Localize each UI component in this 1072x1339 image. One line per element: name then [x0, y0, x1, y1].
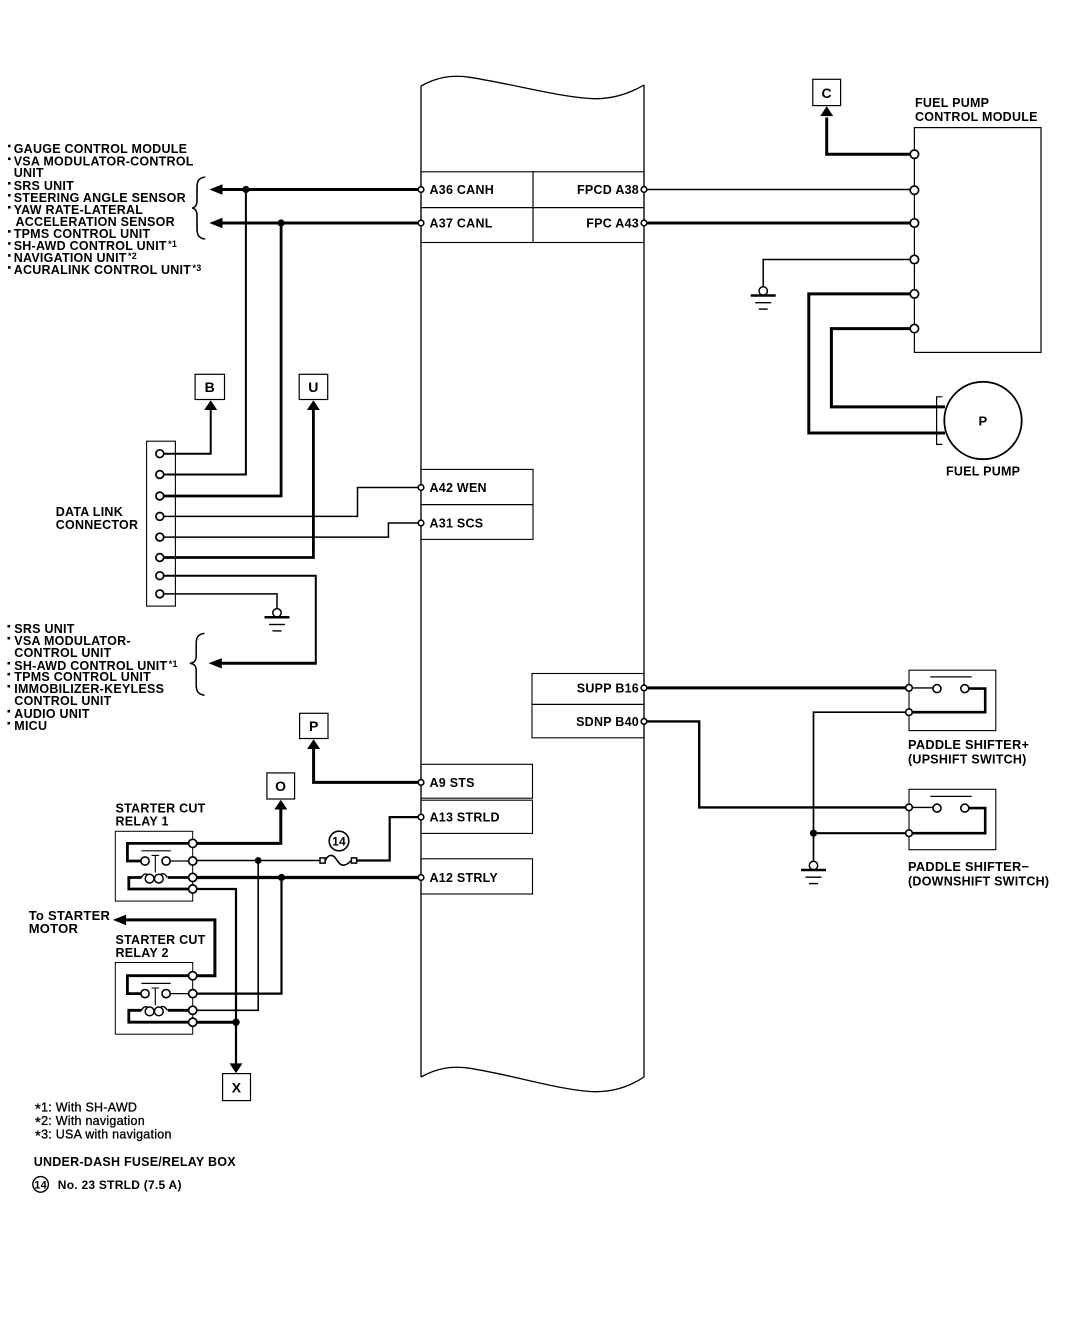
fuel pump motor P [937, 382, 1022, 479]
svg-text:A42 WEN: A42 WEN [430, 481, 487, 495]
svg-text:C: C [822, 85, 832, 101]
wire DLC pin7 down [164, 576, 316, 664]
connector C [813, 79, 841, 105]
svg-text:UNIT: UNIT [14, 166, 44, 180]
connector B [195, 374, 224, 399]
pin A42 WEN [418, 469, 533, 504]
pin A31 SCS [418, 505, 533, 540]
arrowhead into connector P [307, 739, 320, 749]
brace for K-line units [190, 633, 205, 695]
svg-text:ACURALINK CONTROL UNIT *3: ACURALINK CONTROL UNIT *3 [14, 263, 202, 277]
wire DLC pin1 to connector B [164, 410, 211, 454]
pin A36 CANH [418, 172, 533, 208]
connector P [300, 713, 328, 738]
junction paddle ground [810, 830, 817, 837]
svg-text:SDNP B40: SDNP B40 [576, 715, 639, 729]
svg-text:CONTROL UNIT: CONTROL UNIT [14, 646, 111, 660]
svg-text:X: X [232, 1080, 242, 1096]
wire upshift switch to ground [814, 712, 907, 861]
svg-text:P: P [309, 718, 319, 734]
pin FPC A43 [533, 208, 647, 243]
wire relay 2 pin4 segment [197, 1021, 236, 1024]
wire A9 STS to connector P [314, 749, 418, 783]
svg-text:CONTROL MODULE: CONTROL MODULE [915, 110, 1038, 124]
ground G data link connector [265, 609, 290, 631]
svg-text:FUEL PUMP: FUEL PUMP [915, 96, 989, 110]
paddle shifter- downshift switch S2 [906, 789, 1050, 888]
connector X [223, 1074, 251, 1101]
wire module pin6 to fuel pump + [831, 329, 945, 407]
svg-text:MOTOR: MOTOR [29, 921, 79, 936]
svg-text:A31 SCS: A31 SCS [430, 516, 484, 530]
wire DLC pin4 to A42 WEN [164, 488, 418, 517]
wire DLC pin5 to A31 SCS [164, 523, 418, 537]
wire SDNP B40 to downshift switch [648, 721, 907, 807]
fuse callout circled 14 [329, 831, 349, 851]
svg-text:B: B [205, 379, 215, 395]
fuse No.23 STRLD 7.5A [320, 855, 357, 865]
svg-text:PADDLE SHIFTER+: PADDLE SHIFTER+ [908, 737, 1029, 752]
svg-text:UNDER-DASH FUSE/RELAY BOX: UNDER-DASH FUSE/RELAY BOX [34, 1155, 237, 1169]
wire downshift switch to ground junction [814, 832, 907, 834]
junction on STRLD wire [255, 857, 262, 864]
svg-text:STARTER CUT: STARTER CUT [116, 933, 206, 947]
svg-text:A9 STS: A9 STS [430, 776, 475, 790]
arrowhead to gauge list (A37) [209, 218, 222, 228]
svg-text:PADDLE SHIFTER−: PADDLE SHIFTER− [908, 859, 1029, 874]
connector O [267, 773, 295, 799]
starter cut relay 2 [115, 933, 205, 1034]
arrowhead into connector X [230, 1063, 243, 1073]
pin A12 STRLY [418, 859, 532, 894]
wire SUPP B16 to upshift switch [648, 686, 907, 689]
pin SDNP B40 [532, 704, 647, 737]
svg-text:CONNECTOR: CONNECTOR [56, 518, 139, 532]
legend circled 14 fuse No.23 STRLD 7.5A [33, 1177, 182, 1193]
junction on X wire [232, 1019, 239, 1026]
wire module pin1 to connector C [827, 118, 911, 155]
pin A13 STRLD [418, 800, 532, 833]
svg-text:(UPSHIFT SWITCH): (UPSHIFT SWITCH) [908, 753, 1027, 767]
arrowhead to second unit list [209, 658, 222, 668]
wire module pin4 to ground [763, 260, 911, 287]
wire DLC pin8 to ground [164, 594, 277, 609]
wire A37 CANL to multi-unit arrow [217, 222, 418, 225]
junction on STRLY wire [278, 874, 285, 881]
wire A36 branch to DLC pin 2 [164, 191, 246, 475]
svg-text:MICU: MICU [14, 719, 47, 733]
label to starter motor [29, 908, 111, 936]
svg-text:P: P [979, 414, 988, 429]
wire STRLY branch to relay 2 pin2 [197, 878, 282, 994]
ECM/PCM connector band [421, 76, 644, 1091]
wire STRLD branch to relay 2 pin3 [197, 861, 259, 1011]
wire A37 branch to DLC pin 3 [164, 225, 281, 497]
ground G paddle shifters [801, 861, 826, 883]
node list: CAN bus units (top left) [8, 142, 201, 277]
wire FPC A43 to fuel pump control module [648, 222, 912, 225]
wire DLC pin7 to second unit-list arrow [217, 662, 317, 665]
data link connector DLC [56, 441, 176, 606]
svg-text:A12 STRLY: A12 STRLY [430, 871, 499, 885]
wire fuse to starter cut relay 1 pin2 [197, 860, 320, 862]
footnotes [35, 1101, 172, 1145]
svg-text:RELAY 1: RELAY 1 [116, 815, 169, 829]
wire DLC pin6 to connector U [164, 410, 314, 558]
arrowhead into connector B [204, 400, 217, 410]
svg-text:RELAY 2: RELAY 2 [116, 946, 169, 960]
wire relay 1 pin4 / relay 2 pin4 to connector X [197, 889, 236, 1064]
pin A9 STS [418, 764, 532, 798]
svg-text:SUPP B16: SUPP B16 [577, 681, 639, 695]
junction on A36 CANH wire [242, 186, 249, 193]
paddle shifter+ upshift switch S1 [906, 670, 1029, 766]
svg-text:A36 CANH: A36 CANH [430, 183, 495, 197]
svg-text:FPC A43: FPC A43 [586, 216, 639, 230]
pin FPCD A38 [533, 172, 647, 208]
svg-text:O: O [275, 778, 286, 794]
wire FPCD A38 to fuel pump control module [648, 189, 912, 191]
svg-text:A37 CANL: A37 CANL [430, 216, 493, 230]
svg-text:U: U [308, 379, 318, 395]
fuel pump control module U1 [910, 96, 1041, 352]
svg-text:FUEL PUMP: FUEL PUMP [946, 465, 1020, 479]
svg-text:14: 14 [34, 1179, 47, 1191]
wire module pin5 to fuel pump - [809, 294, 945, 433]
wire A13 STRLD to fuse [356, 817, 418, 860]
svg-text:14: 14 [332, 834, 346, 848]
brace for CAN bus units [192, 177, 205, 239]
svg-text:CONTROL UNIT: CONTROL UNIT [14, 694, 111, 708]
svg-text:(DOWNSHIFT SWITCH): (DOWNSHIFT SWITCH) [908, 875, 1049, 889]
svg-text:FPCD A38: FPCD A38 [577, 183, 639, 197]
wire A12 STRLY to relay 1 pin3 [197, 876, 418, 879]
junction on A37 CANL wire [278, 219, 285, 226]
ground G fuel pump control module [751, 287, 776, 309]
svg-text:No. 23 STRLD (7.5 A): No. 23 STRLD (7.5 A) [58, 1178, 182, 1192]
arrowhead to starter motor [113, 915, 126, 926]
svg-text:STARTER CUT: STARTER CUT [116, 802, 206, 816]
svg-text:DATA LINK: DATA LINK [56, 505, 123, 519]
pin A37 CANL [418, 208, 533, 243]
node list: K-line units (middle left) [8, 622, 178, 733]
svg-text:A13 STRLD: A13 STRLD [430, 811, 500, 825]
starter cut relay 1 [115, 802, 205, 902]
wire A36 CANH to multi-unit arrow [217, 188, 418, 191]
wire relay 1 pin1 to connector O [197, 809, 281, 844]
arrowhead into connector O [274, 800, 287, 810]
arrowhead to gauge list (A36) [209, 184, 222, 194]
arrowhead into connector U [307, 400, 320, 410]
pin SUPP B16 [532, 674, 647, 705]
connector U [299, 374, 328, 399]
arrowhead into connector C [820, 106, 833, 116]
wire relay 2 pin1 to starter motor arrow [126, 920, 215, 976]
